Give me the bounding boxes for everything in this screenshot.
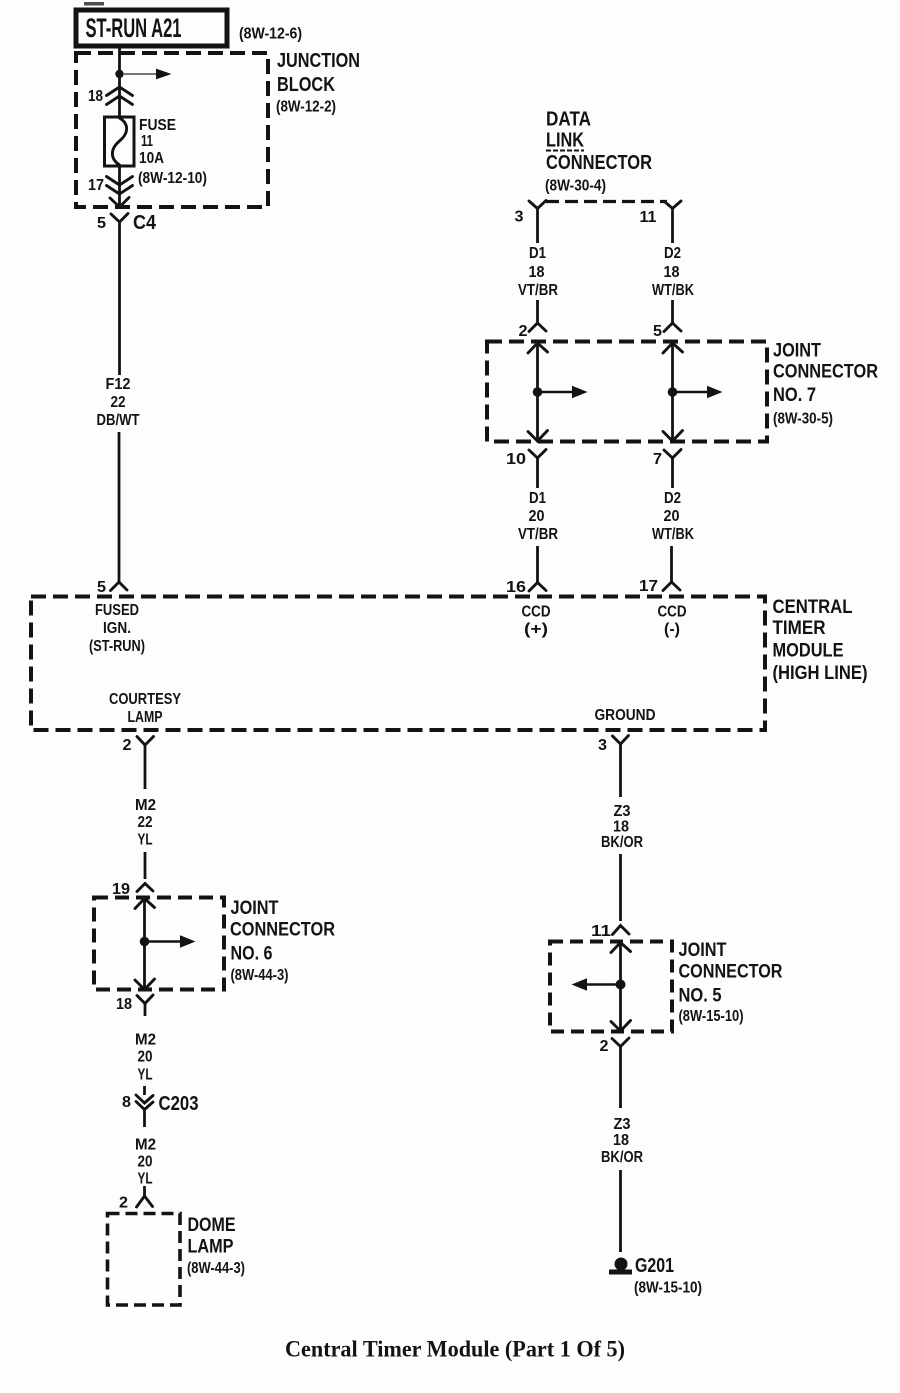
svg-text:TIMER: TIMER: [773, 618, 826, 639]
wire F12 down to CTM pin 5: [118, 432, 121, 582]
svg-text:CENTRAL: CENTRAL: [773, 597, 853, 618]
wire label D1 20 VT/BR: [518, 490, 558, 543]
wire label D2 18 WT/BK: [652, 245, 694, 299]
fork into CTM pin 16: [529, 583, 546, 592]
svg-text:G201: G201: [635, 1255, 674, 1277]
fork into CTM pin 17: [663, 582, 680, 591]
joint connector no 6 dashed box: [94, 898, 224, 990]
svg-text:10A: 10A: [139, 150, 164, 167]
junction node dot: [115, 70, 123, 78]
fork into JC6 pin 19: [137, 884, 153, 892]
fork into dome lamp pin 2: [137, 1186, 153, 1207]
svg-text:YL: YL: [138, 1171, 153, 1188]
svg-text:18: 18: [116, 996, 132, 1013]
svg-text:CONNECTOR: CONNECTOR: [230, 920, 335, 941]
svg-text:10: 10: [506, 451, 526, 468]
svg-text:FUSE: FUSE: [139, 117, 176, 134]
svg-text:(8W-30-4): (8W-30-4): [545, 178, 606, 195]
wire into JC7 pin 5: [671, 300, 674, 323]
svg-text:11: 11: [141, 133, 153, 150]
svg-text:18: 18: [613, 819, 629, 836]
svg-text:JOINT: JOINT: [231, 898, 279, 919]
svg-text:CCD: CCD: [522, 604, 551, 621]
junction block label: [276, 50, 360, 116]
CTM pin 16 function label CCD plus: [522, 604, 551, 639]
svg-text:LAMP: LAMP: [128, 709, 163, 726]
scan mark artifact: [84, 2, 104, 6]
JC6 bus wire: [135, 899, 196, 990]
svg-text:YL: YL: [138, 1067, 153, 1084]
wire label F12 22 DB/WT: [97, 376, 140, 429]
dome lamp label: [187, 1215, 245, 1277]
wire below JC6: [144, 1004, 147, 1017]
fork out of JC7 pin 10: [529, 450, 546, 459]
ground symbol G201: [609, 1258, 632, 1275]
svg-text:VT/BR: VT/BR: [518, 526, 558, 543]
joint connector no 5 label: [679, 940, 783, 1025]
svg-text:CONNECTOR: CONNECTOR: [679, 962, 783, 983]
central timer module dashed box: [31, 597, 765, 731]
wire below JC7 pin 7: [671, 458, 674, 488]
svg-text:LINK: LINK: [546, 129, 584, 151]
JC7 right bus wire: [663, 343, 723, 441]
data link connector dashed bar: [546, 200, 667, 203]
wire Z3 upper: [619, 744, 622, 797]
svg-text:C203: C203: [159, 1093, 199, 1115]
wire into C203: [143, 1086, 146, 1095]
svg-text:5: 5: [97, 579, 106, 596]
data link connector label: [545, 109, 652, 195]
wire C4 to F12 label: [118, 222, 121, 375]
wire into JC6 pin 19: [144, 852, 147, 879]
svg-text:5: 5: [653, 323, 662, 340]
svg-text:Z3: Z3: [614, 1116, 631, 1133]
wire label M2 22 YL: [135, 797, 156, 849]
JC5 bus wire: [572, 943, 631, 1032]
fork out of JC6 pin 18: [137, 995, 153, 1004]
svg-text:LAMP: LAMP: [188, 1237, 234, 1258]
svg-text:18: 18: [529, 264, 545, 281]
svg-text:NO. 5: NO. 5: [679, 986, 722, 1007]
svg-text:(8W-12-6): (8W-12-6): [239, 26, 302, 43]
svg-text:(ST-RUN): (ST-RUN): [89, 638, 145, 655]
svg-text:NO. 6: NO. 6: [231, 944, 273, 965]
svg-text:FUSED: FUSED: [95, 602, 139, 619]
dome lamp dashed box: [108, 1214, 181, 1306]
CTM pin 5 function label: [89, 602, 145, 655]
svg-text:WT/BK: WT/BK: [652, 282, 694, 299]
svg-text:17: 17: [639, 578, 658, 595]
svg-text:VT/BR: VT/BR: [518, 282, 558, 299]
wire from fuse to junction block edge: [118, 166, 121, 206]
svg-text:IGN.: IGN.: [103, 620, 131, 637]
fuse value label: [138, 117, 207, 187]
fork into JC5 pin 11: [613, 926, 630, 935]
joint connector no 7 dashed box: [487, 342, 767, 442]
svg-text:F12: F12: [106, 376, 131, 393]
branch arrow right: [124, 69, 172, 80]
svg-text:CCD: CCD: [658, 604, 687, 621]
svg-text:(8W-44-3): (8W-44-3): [231, 967, 289, 984]
svg-text:22: 22: [138, 814, 153, 831]
svg-text:(HIGH LINE): (HIGH LINE): [773, 663, 868, 684]
svg-text:22: 22: [111, 394, 126, 411]
CTM courtesy lamp label: [109, 691, 181, 726]
svg-text:18: 18: [613, 1132, 629, 1149]
svg-text:7: 7: [653, 451, 662, 468]
svg-text:YL: YL: [138, 832, 153, 849]
wire label Z3 18 BK/OR lower: [601, 1116, 643, 1166]
svg-text:CONNECTOR: CONNECTOR: [773, 362, 878, 383]
in-line connector C203: [136, 1095, 153, 1127]
svg-text:(8W-30-5): (8W-30-5): [773, 411, 833, 428]
svg-text:D1: D1: [529, 245, 546, 262]
fork into JC7 pin 5: [664, 323, 681, 332]
wire label M2 20 YL: [135, 1032, 156, 1084]
wire to ground G201: [619, 1170, 622, 1252]
fork out of JC7 pin 7: [664, 450, 681, 459]
svg-text:DATA: DATA: [546, 109, 591, 131]
wire into CTM pin 16: [536, 546, 539, 582]
svg-text:JOINT: JOINT: [679, 940, 727, 961]
svg-text:2: 2: [123, 737, 132, 754]
svg-text:18: 18: [88, 88, 103, 105]
svg-text:BK/OR: BK/OR: [601, 834, 643, 851]
svg-text:11: 11: [640, 209, 657, 226]
wire D1 upper: [536, 209, 539, 244]
svg-text:19: 19: [112, 881, 130, 898]
connector C4 fork pin 5: [111, 214, 128, 223]
svg-text:BK/OR: BK/OR: [601, 1149, 643, 1166]
wire into JC5 pin 11: [619, 854, 622, 921]
svg-text:2: 2: [600, 1038, 609, 1055]
wire D2 upper: [671, 209, 674, 244]
svg-text:CONNECTOR: CONNECTOR: [546, 152, 652, 174]
svg-text:20: 20: [529, 508, 545, 525]
power feed box ST-RUN A21: [76, 10, 227, 46]
svg-text:16: 16: [506, 579, 526, 596]
svg-text:20: 20: [138, 1154, 153, 1171]
svg-text:DOME: DOME: [188, 1215, 236, 1236]
connector chevrons pin 18: [107, 87, 133, 105]
svg-text:BLOCK: BLOCK: [277, 74, 335, 96]
svg-text:JOINT: JOINT: [773, 341, 821, 362]
svg-text:JUNCTION: JUNCTION: [277, 50, 360, 72]
svg-text:(8W-44-3): (8W-44-3): [187, 1260, 245, 1277]
svg-text:M2: M2: [135, 1137, 156, 1154]
fork out of CTM pin 2: [137, 737, 154, 746]
svg-text:DB/WT: DB/WT: [97, 412, 140, 429]
svg-text:11: 11: [591, 923, 611, 940]
svg-text:(8W-12-2): (8W-12-2): [276, 99, 336, 116]
svg-text:(-): (-): [664, 621, 680, 638]
CTM pin 17 function label CCD minus: [658, 604, 687, 639]
svg-text:20: 20: [664, 508, 680, 525]
svg-text:8: 8: [122, 1094, 131, 1111]
svg-text:(8W-12-10): (8W-12-10): [138, 170, 207, 187]
svg-text:NO. 7: NO. 7: [773, 385, 816, 406]
wire label D2 20 WT/BK: [652, 490, 694, 543]
svg-text:(8W-15-10): (8W-15-10): [679, 1008, 744, 1025]
joint connector no 5 dashed box: [550, 942, 672, 1032]
joint connector no 6 label: [230, 898, 335, 984]
svg-text:D2: D2: [664, 490, 681, 507]
svg-text:Z3: Z3: [614, 803, 631, 820]
wire label Z3 18 BK/OR: [601, 803, 643, 851]
wire below JC7 pin 10: [536, 458, 539, 488]
svg-text:C4: C4: [133, 212, 157, 234]
wire from ST-RUN A21 into fuse: [118, 46, 121, 117]
fuse F11 body: [105, 117, 135, 166]
JC7 left bus wire: [528, 343, 588, 441]
svg-text:Central Timer Module (Part 1 O: Central Timer Module (Part 1 Of 5): [285, 1337, 625, 1362]
svg-text:3: 3: [515, 209, 524, 226]
svg-text:3: 3: [598, 737, 607, 754]
svg-text:(+): (+): [524, 621, 548, 638]
joint connector no 7 label: [773, 341, 878, 428]
svg-text:MODULE: MODULE: [773, 641, 844, 662]
svg-text:D2: D2: [664, 245, 681, 262]
wire into JC7 pin 2: [536, 300, 539, 323]
svg-text:5: 5: [97, 215, 106, 232]
svg-text:M2: M2: [135, 797, 156, 814]
central timer module label: [773, 597, 868, 684]
svg-text:M2: M2: [135, 1032, 156, 1049]
svg-text:2: 2: [119, 1195, 128, 1212]
arrowhead at junction block exit: [110, 198, 129, 208]
svg-text:WT/BK: WT/BK: [652, 526, 694, 543]
fork into CTM pin 5: [111, 582, 128, 591]
wire label M2 20 YL lower: [135, 1137, 156, 1188]
svg-text:ST-RUN A21: ST-RUN A21: [86, 13, 182, 43]
svg-text:18: 18: [664, 264, 680, 281]
fork out of JC5 pin 2: [612, 1038, 629, 1047]
DLC fork pin 11: [665, 201, 682, 209]
wire below JC5: [619, 1047, 622, 1109]
fork into JC7 pin 2: [529, 323, 546, 332]
svg-text:2: 2: [519, 323, 528, 340]
junction block dashed box: [76, 53, 268, 207]
svg-text:17: 17: [88, 177, 104, 194]
fork out of CTM pin 3: [613, 736, 629, 745]
wire into CTM pin 17: [670, 546, 673, 582]
svg-text:20: 20: [138, 1049, 153, 1066]
wire M2 upper: [144, 745, 147, 789]
wire label D1 18 VT/BR: [518, 245, 558, 299]
DLC fork pin 3: [529, 201, 546, 209]
svg-text:(8W-15-10): (8W-15-10): [634, 1280, 702, 1297]
svg-text:COURTESY: COURTESY: [109, 691, 181, 708]
svg-text:D1: D1: [529, 490, 546, 507]
connector chevrons pin 17: [107, 177, 133, 195]
svg-text:GROUND: GROUND: [595, 707, 656, 724]
